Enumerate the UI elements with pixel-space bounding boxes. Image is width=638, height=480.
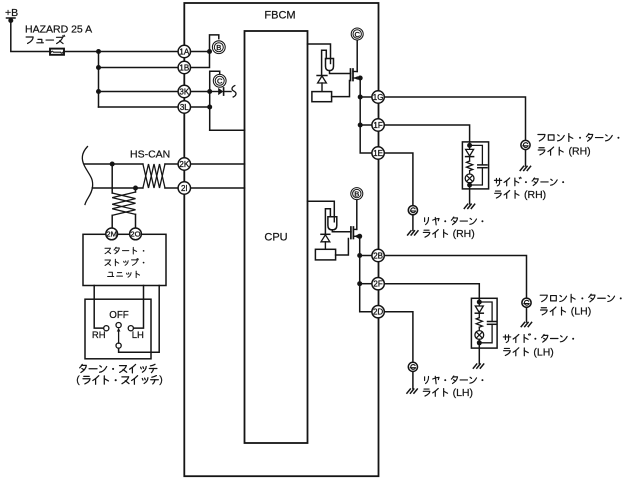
wire 1A to junction (191, 51, 210, 53)
label rear turn (katakana) LH (425, 376, 484, 384)
pin 2B (372, 249, 384, 261)
label side turn (katakana) RH (494, 177, 564, 186)
pin 2M (106, 228, 118, 240)
svg-text:+B: +B (5, 7, 18, 19)
switch pole arrow (117, 328, 121, 344)
junction side LH top (477, 300, 482, 305)
resistor side RH (zigzag) (467, 161, 473, 171)
wire rear LH to ground (412, 372, 414, 389)
side turn light LH box (471, 298, 497, 348)
turn switch box (85, 299, 151, 359)
wire CPU to driver RH (308, 44, 331, 59)
wire side LH to ground (478, 343, 480, 364)
wire 1B up to junction (191, 52, 210, 68)
svg-text:2I: 2I (181, 184, 188, 193)
label light RH (538, 147, 563, 155)
junction (96, 65, 101, 70)
svg-text:FBCM: FBCM (264, 10, 295, 22)
wire resistor to gate RH (332, 81, 350, 97)
pin 3L (178, 101, 190, 113)
wire fuse to bus (64, 51, 99, 53)
wire 2D to rear LH (384, 312, 413, 363)
twisted pair vertical to start-stop unit (112, 193, 135, 215)
bracket to connector C and riser (210, 71, 220, 130)
side turn light RH box (462, 142, 488, 189)
ground side LH (473, 364, 483, 368)
diode D2 (LH driver) (321, 234, 330, 249)
start-stop unit box (83, 234, 166, 285)
label side turn (katakana) LH (503, 334, 574, 343)
switch contact LH (128, 326, 133, 331)
harness break arc (82, 147, 92, 205)
bracket to connector B (210, 35, 219, 52)
svg-text:(LH): (LH) (453, 387, 473, 399)
wire +B to fuse (11, 21, 50, 52)
capacitor side RH (470, 145, 487, 185)
MOSFET Q1 (RH driver) (351, 69, 361, 81)
svg-text:2K: 2K (179, 160, 189, 169)
wire twist to 2K (165, 163, 178, 165)
wire to 2M (111, 215, 113, 228)
wire 2I to CPU (191, 187, 245, 189)
svg-text:1F: 1F (373, 121, 382, 130)
junction side LH bottom (477, 340, 482, 345)
wire to 3K (99, 91, 179, 93)
junction side RH bottom (467, 183, 472, 188)
label light front LH (541, 307, 566, 315)
wire sensor to diode LH (325, 209, 330, 235)
wire 2K to CPU (191, 163, 245, 165)
pin 1B (178, 61, 190, 73)
connector B (212, 41, 225, 54)
ground front RH (520, 166, 530, 170)
driver sensor RH (thimble) (326, 59, 334, 71)
wire drain to connector B (356, 200, 358, 230)
svg-text:(RH): (RH) (569, 146, 591, 158)
wire drain to connector C (356, 40, 358, 71)
diode D1 (RH driver) (317, 76, 327, 92)
label light side RH (495, 190, 519, 198)
pin 2K (178, 158, 190, 170)
junction (96, 49, 101, 54)
lamp side RH (465, 171, 474, 183)
svg-text:HAZARD 25 A: HAZARD 25 A (25, 23, 92, 35)
wire front LH to ground (526, 307, 528, 322)
resistor R2 (LH driver) (315, 249, 335, 260)
ground rear RH (408, 231, 418, 235)
junction source LH (357, 234, 362, 239)
wire side RH to ground (469, 185, 471, 204)
wire break squiggle at C (232, 86, 236, 97)
wire switch pole return (119, 286, 160, 353)
svg-text:2M: 2M (106, 230, 117, 239)
ground rear LH (407, 389, 417, 393)
wire to 2O (135, 214, 137, 228)
switch contact pole bottom (116, 343, 121, 348)
svg-text:(RH): (RH) (453, 228, 475, 240)
wire to 1G (360, 96, 372, 98)
svg-text:): ) (159, 374, 163, 386)
switch contact common top (116, 323, 121, 328)
resistor side LH (zigzag) (476, 318, 482, 328)
wire rear RH to ground (412, 215, 414, 231)
wire 1G to front RH (384, 97, 525, 140)
node +B tick (7, 17, 16, 19)
junction CAN-H (110, 162, 115, 167)
svg-text:(RH): (RH) (524, 189, 546, 201)
wire to 1A (99, 51, 179, 53)
svg-text:HS-CAN: HS-CAN (130, 149, 170, 161)
wire 2B to front LH (384, 256, 526, 299)
pin 1A (178, 45, 190, 57)
pin 3K (178, 85, 190, 97)
wire to 1F (360, 124, 372, 126)
junction 1G (358, 95, 363, 100)
bulb rear turn RH (408, 206, 417, 215)
driver sensor LH (thimble) (328, 217, 337, 230)
wire CAN-H left (84, 163, 143, 165)
wire 1F to side RH (384, 125, 469, 143)
bus driver RH outputs (360, 78, 372, 153)
svg-text:1G: 1G (373, 93, 384, 102)
svg-text:C: C (217, 77, 223, 86)
wire CPU to driver LH (308, 201, 335, 217)
junction 1F (358, 123, 363, 128)
junction 3K (207, 89, 212, 94)
svg-text:2B: 2B (373, 251, 383, 260)
label start (katakana) (105, 247, 144, 254)
diode at 3K (210, 88, 231, 95)
twisted pair HS-CAN horizontal (143, 164, 165, 188)
svg-text:B: B (216, 43, 221, 52)
wire sensor to diode RH (322, 50, 327, 75)
svg-text:(LH): (LH) (571, 306, 591, 318)
wire 2F to side LH (384, 284, 479, 300)
label light rear LH (423, 388, 447, 396)
label rear turn (katakana) RH (425, 217, 484, 225)
pin 1E (372, 147, 384, 159)
svg-text:OFF: OFF (109, 310, 129, 321)
label light rear RH (423, 230, 447, 238)
svg-text:RH: RH (92, 330, 106, 341)
wire lamp to node side LH (478, 339, 480, 342)
ground side RH (464, 204, 474, 208)
wire unit to RH contact (94, 286, 104, 329)
svg-text:C: C (354, 30, 360, 39)
LED side RH (466, 145, 474, 161)
svg-text:3K: 3K (179, 87, 189, 96)
wire 3L to junction (191, 106, 210, 108)
svg-text:B: B (354, 189, 359, 198)
junction CAN-L (133, 186, 138, 191)
node +B (8, 18, 13, 23)
label stop (katakana) (105, 259, 144, 266)
capacitor side LH (479, 302, 496, 343)
wire lamp to node side RH (469, 183, 471, 185)
pin 2D (372, 306, 384, 318)
wire 1E to rear RH (384, 153, 413, 206)
wire twist to 2I (165, 187, 178, 189)
wire unit to LH contact (132, 286, 143, 329)
bus driver LH outputs (360, 236, 372, 311)
junction 3L (207, 105, 212, 110)
bulb front turn RH (521, 140, 530, 149)
bus vertical (98, 52, 100, 108)
junction side RH top (467, 143, 472, 148)
connector C (213, 74, 226, 87)
wire to 3L (99, 106, 179, 108)
bulb front turn LH (522, 298, 531, 307)
wire 3L branch to CPU (210, 129, 245, 131)
wire sensor out to gate RH (330, 71, 351, 74)
wire sensor out to gate LH (332, 230, 351, 232)
svg-text:1B: 1B (179, 63, 189, 72)
junction 2F (357, 281, 362, 286)
wire front RH to ground (525, 150, 527, 166)
wire to 2B (360, 255, 372, 257)
svg-text:CPU: CPU (264, 232, 287, 244)
label light switch (katakana) (83, 376, 158, 385)
bulb rear turn LH (408, 362, 417, 371)
svg-text:(: ( (76, 374, 80, 386)
svg-text:1E: 1E (373, 149, 383, 158)
label turn switch (katakana) (80, 364, 157, 373)
svg-text:LH: LH (132, 330, 144, 341)
svg-text:2F: 2F (373, 280, 382, 289)
svg-text:(LH): (LH) (533, 346, 553, 358)
wire down right (135, 188, 137, 192)
switch contact RH (104, 326, 109, 331)
pin 1G (372, 91, 384, 103)
junction (96, 89, 101, 94)
connector C (driver RH) (351, 28, 363, 40)
wire resistor to gate LH (336, 239, 349, 256)
lamp side LH (475, 327, 484, 339)
svg-text:2D: 2D (373, 308, 383, 317)
svg-text:1A: 1A (179, 47, 189, 56)
wire 3K to junction (191, 91, 210, 93)
connector B (driver LH) (351, 188, 363, 200)
wire to 2F (360, 283, 372, 285)
wire down left (111, 164, 113, 193)
resistor R1 (RH driver) (312, 92, 332, 102)
pin 2O (130, 228, 142, 240)
label front turn (katakana) RH (538, 133, 620, 141)
label unit (katakana) (108, 271, 140, 278)
wire to 1B (99, 67, 179, 69)
junction source RH (358, 76, 363, 81)
junction 1A/1B (207, 49, 212, 54)
pin 1F (372, 119, 384, 131)
ground front LH (521, 322, 531, 326)
CPU box (245, 31, 308, 443)
label front turn (katakana) LH (540, 294, 622, 302)
label fuse (katakana) (26, 35, 65, 43)
wire CAN-L left (92, 187, 143, 189)
FBCM module box (184, 3, 378, 476)
pin 2I (178, 182, 190, 194)
LED side LH (475, 302, 483, 318)
svg-text:2O: 2O (130, 230, 140, 239)
svg-text:3L: 3L (180, 103, 189, 112)
pin 2F (372, 278, 384, 290)
fuse HAZARD 25A (50, 49, 64, 55)
junction 2B (357, 253, 362, 258)
label light side LH (504, 348, 529, 356)
MOSFET Q2 (LH driver) (351, 227, 360, 239)
